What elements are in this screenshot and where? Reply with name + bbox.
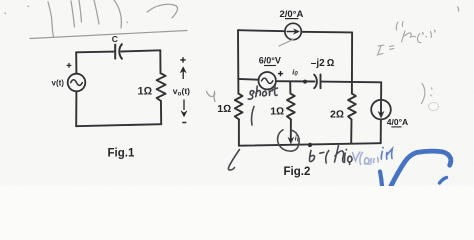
wire Fig.1 right rail lower xyxy=(160,101,162,124)
pencil scribble top stroke 4 xyxy=(114,0,121,28)
wire Fig.2 left rail lower xyxy=(238,119,240,145)
wire Fig.1 left rail lower xyxy=(75,91,77,126)
wire Fig.2 top rail right segment xyxy=(301,31,352,34)
pencil close paren mark right side xyxy=(422,84,425,104)
handwriting: small blue tick xyxy=(440,178,447,184)
wire Fig.2 left rail upper xyxy=(237,30,239,93)
handwritten i with dot and e xyxy=(344,150,352,165)
pencil diagonal near 2A source xyxy=(279,40,293,47)
wire Fig.1 left rail upper xyxy=(75,52,77,73)
wire Fig.1 top rail right segment xyxy=(121,50,160,51)
label 6/0 V xyxy=(259,56,281,66)
handwritten circle around i0 arrow xyxy=(278,130,300,151)
pencil scribble top stroke 2 xyxy=(71,0,82,27)
pencil tiny dots top left xyxy=(5,6,128,23)
resistor 2ohm Fig.2 xyxy=(348,94,356,120)
arrow down v0 xyxy=(181,100,187,117)
label minus output polarity xyxy=(182,122,186,124)
wire Fig.2 top rail left segment xyxy=(238,30,285,31)
handwritten stroke below Short xyxy=(252,107,254,126)
handwritten b after node xyxy=(310,151,315,162)
label + polarity of v(t) xyxy=(67,63,72,68)
handwriting: blue 'in' xyxy=(381,148,392,160)
handwritten word short over 6V source xyxy=(247,85,278,100)
handwriting: faint blue V(e...) xyxy=(353,152,379,165)
handwriting: big blue stroke xyxy=(391,151,451,186)
wire Fig.1 top rail left segment xyxy=(76,51,115,54)
label + output polarity xyxy=(180,57,185,62)
capacitor -j2 ohm xyxy=(314,74,320,88)
pencil y-mark right of Fig.1 xyxy=(207,92,216,102)
current source 4A right xyxy=(371,100,391,120)
wire 2ohm branch lower xyxy=(350,119,352,143)
wire Fig.2 right rail lower xyxy=(380,119,382,143)
source V1 v(t) Fig.1 xyxy=(68,74,86,92)
arrow inside 2A source pointing right xyxy=(287,29,300,35)
handwritten dash xyxy=(320,151,324,154)
pencil colon dots right side xyxy=(431,88,432,96)
resistor 1ohm middle Fig.2 xyxy=(287,94,295,120)
handwritten open paren xyxy=(326,151,329,164)
wire Fig.2 bottom rail xyxy=(239,143,381,146)
arrow up v0 xyxy=(180,67,186,79)
wire Fig.2 middle rail segment 3 xyxy=(321,81,382,84)
resistor R 1ohm Fig.1 xyxy=(157,73,166,101)
node dot b on bottom rail xyxy=(308,143,312,147)
wire 2ohm branch upper xyxy=(351,32,353,93)
label 4/0 A xyxy=(387,117,408,127)
pencil underline across top xyxy=(30,31,187,39)
handwriting: blue short stroke left of big one xyxy=(380,172,382,187)
pencil equation I = 6/K(1.1) xyxy=(378,22,436,56)
label + polarity 6V source xyxy=(278,71,283,76)
current source 2A top xyxy=(285,23,301,39)
wire Fig.1 bottom rail xyxy=(76,124,161,126)
pencil scribble top stroke 1 xyxy=(48,2,54,37)
handwritten h xyxy=(335,146,345,163)
arrow inside 4A source pointing down xyxy=(378,102,384,119)
node dot i0 on middle rail xyxy=(303,80,307,84)
source 6V Fig.2 xyxy=(259,72,276,89)
resistor 1ohm left Fig.2 xyxy=(235,94,243,120)
label 2/0 A top xyxy=(280,9,304,20)
handwritten L mark bottom left xyxy=(228,150,239,171)
pencil apostrophe top right xyxy=(458,7,459,11)
wire middle branch drop xyxy=(289,81,291,93)
capacitor C Fig.1 xyxy=(115,44,122,59)
arrow i0 branch current xyxy=(288,119,294,143)
pencil scribble top stroke 5 xyxy=(147,4,178,18)
pencil faint smudge xyxy=(429,103,439,111)
wire Fig.1 right rail upper xyxy=(159,50,161,73)
pencil scribble top stroke 3 xyxy=(94,0,99,24)
wire Fig.2 right rail upper xyxy=(380,82,382,99)
wire Fig.2 middle rail segment 2 xyxy=(276,80,315,82)
wire Fig.2 middle rail segment 1 xyxy=(238,78,258,81)
